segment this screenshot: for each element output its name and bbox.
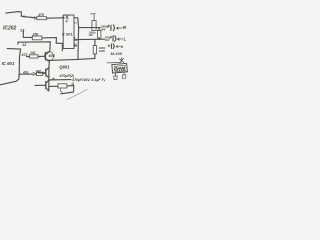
diode arrow — [33, 72, 36, 75]
wire mid rail — [49, 58, 95, 60]
wire — [27, 55, 45, 57]
wire cap top stub — [91, 14, 96, 21]
transistor Q603 lower — [45, 82, 47, 89]
wire R output path — [74, 18, 100, 28]
pin 10 label — [74, 44, 76, 46]
arrow to R — [116, 27, 122, 29]
pin stub — [74, 22, 77, 24]
resistor R608 vertical lower — [94, 40, 96, 46]
resistor R604 — [36, 72, 42, 75]
wire output rail — [48, 67, 50, 91]
paper background — [0, 0, 134, 100]
resistor R602 — [32, 36, 42, 40]
svg-text:472: 472 — [21, 53, 28, 57]
resistor R605 bottom — [49, 85, 58, 87]
svg-text:13: 13 — [20, 27, 25, 32]
pin legs — [114, 73, 117, 80]
wire pin 12 row — [18, 42, 50, 51]
wire vertical rail — [77, 28, 80, 60]
svg-text:16·24V: 16·24V — [110, 52, 122, 56]
arrow to K — [116, 46, 120, 48]
svg-text:250: 250 — [32, 33, 39, 37]
wire IC601 out row — [19, 73, 33, 75]
op-amp U1 K601 box — [63, 15, 74, 49]
pin 10 stub — [74, 45, 77, 47]
node X mark — [119, 58, 123, 63]
capacitor C602 + — [110, 36, 112, 38]
resistor R603 — [30, 55, 39, 58]
svg-text:IC 601: IC 601 — [2, 61, 15, 66]
capacitor C601 + — [108, 25, 110, 27]
svg-text:682: 682 — [36, 69, 41, 73]
wire L row — [76, 38, 104, 40]
svg-text:10: 10 — [73, 43, 77, 47]
stray pencil arc — [67, 89, 87, 99]
wire — [46, 17, 63, 19]
svg-text:16V: 16V — [89, 34, 94, 37]
resistor R606 vertical — [92, 21, 96, 31]
wire — [42, 38, 63, 51]
transistor Q601 upper — [45, 69, 47, 76]
node tick2 — [34, 16, 36, 19]
svg-text:R: R — [123, 25, 127, 31]
svg-text:IC202: IC202 — [3, 26, 17, 32]
ground hook — [60, 89, 62, 92]
node junction out — [48, 79, 50, 81]
node plus tick — [52, 78, 55, 81]
resistor R601 470 — [37, 17, 47, 20]
svg-text:470: 470 — [37, 13, 44, 17]
svg-text:K 601: K 601 — [62, 32, 73, 37]
wire bottom rail — [107, 62, 121, 64]
svg-text:GtW: GtW — [114, 66, 127, 73]
transistor Q604 package box — [112, 63, 127, 73]
capacitor C603 + — [108, 45, 110, 47]
wire diagonal from edge — [0, 74, 19, 84]
svg-text:47µ: 47µ — [22, 71, 29, 75]
transistor Q602 — [44, 52, 53, 61]
svg-text:Q601: Q601 — [59, 65, 70, 70]
svg-text:600: 600 — [49, 54, 56, 58]
wire left stub — [7, 49, 20, 56]
arrow to L — [117, 38, 122, 40]
node tick — [23, 16, 24, 18]
wire pin 13 — [23, 31, 32, 37]
labels — [2, 13, 127, 86]
node pin7 triangle — [74, 38, 76, 40]
svg-text:Ω: Ω — [71, 82, 75, 86]
pin arrow — [66, 16, 69, 20]
svg-text:L: L — [123, 36, 126, 42]
vertical wire to IC601 row — [18, 56, 20, 74]
svg-text:1/4W: 1/4W — [98, 49, 105, 53]
svg-text:K: K — [121, 45, 124, 49]
svg-text:101: 101 — [30, 51, 36, 55]
wire top-left step — [6, 12, 37, 18]
wire — [43, 72, 46, 75]
wire output row — [49, 79, 71, 81]
wire ground dash — [61, 92, 74, 94]
resistor R607 vertical — [98, 28, 100, 31]
node junction — [62, 17, 64, 19]
svg-text:16V: 16V — [105, 39, 110, 42]
wire collector/emitter rail — [48, 61, 50, 67]
svg-text:4: 4 — [65, 19, 68, 23]
Q604 label scribble — [114, 65, 126, 72]
